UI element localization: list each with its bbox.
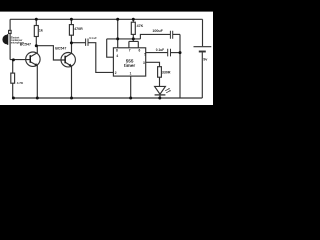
resistor R2 4.7K body	[11, 73, 15, 83]
svg-text:1k: 1k	[39, 28, 43, 32]
transistor Q1 emitter	[31, 62, 38, 98]
svg-text:470R: 470R	[74, 27, 83, 31]
wire resistor R5 to LED	[159, 77, 161, 86]
battery B1 feed from rail	[202, 19, 204, 46]
transistor Q2 circle	[61, 53, 75, 67]
svg-text:7: 7	[129, 48, 131, 52]
resistor R1 1k body	[34, 26, 38, 37]
wire resistor R4 bottom lead	[132, 34, 134, 39]
capacitor C3 0.1uF plates	[168, 49, 171, 57]
wire resistor R4 top lead	[132, 19, 134, 22]
wire capacitor C2 to ground column	[173, 33, 180, 35]
junction dots top rail	[35, 18, 38, 21]
wire resistor R1 top lead	[35, 19, 37, 25]
wire pin1 to ground	[130, 76, 132, 98]
battery B1 short plate	[199, 51, 206, 53]
resistor R5 330R body	[158, 67, 162, 78]
transistor Q1 collector	[31, 46, 38, 57]
capacitor C1 0.1uF plates	[86, 39, 88, 46]
wire base of Q1	[10, 59, 30, 61]
svg-text:BC547: BC547	[20, 42, 31, 46]
wire Vcc drop to node A	[117, 19, 119, 39]
wire capacitor C1 to pin2	[88, 43, 113, 73]
wire pi link pins 7 and 6	[129, 39, 138, 48]
junction dot node A	[116, 37, 119, 40]
transistor Q1 circle	[26, 52, 40, 66]
wire bus node A to pin4 branch	[107, 38, 141, 40]
svg-text:5: 5	[144, 52, 146, 56]
wire resistor R2 bottom lead	[12, 83, 14, 98]
wire pin5 to capacitor C3	[146, 52, 168, 54]
transistor Q2 emitter arrowhead	[69, 64, 72, 67]
LED D1 cathode bar	[155, 94, 166, 96]
junction dot cap ground node	[179, 51, 182, 54]
wire mic to base node	[9, 34, 11, 60]
wire resistor R2 top lead	[12, 60, 14, 74]
wire resistor R3 top lead	[70, 19, 72, 24]
svg-text:0.1 uF: 0.1 uF	[89, 36, 97, 40]
LED D1 lead to ground	[159, 95, 161, 98]
svg-text:0.1uF: 0.1uF	[156, 48, 164, 52]
wire capacitor C3 to ground column	[171, 52, 180, 54]
IC U1 555 box	[113, 48, 145, 76]
svg-text:330R: 330R	[162, 70, 171, 74]
junction dots bottom rail	[12, 97, 15, 100]
wire left drop from rail to mic	[9, 19, 11, 30]
svg-text:8: 8	[116, 49, 118, 53]
wire coupling Q1 collector to Q2 base	[36, 46, 64, 60]
wire pin3 output	[146, 62, 160, 66]
white schematic background between black bars	[0, 12, 213, 105]
junction dot base node	[12, 58, 15, 61]
svg-text:4: 4	[116, 54, 118, 58]
svg-text:3: 3	[143, 61, 145, 65]
battery B1 lead to ground rail	[201, 52, 203, 98]
junction dot node B	[132, 37, 135, 40]
resistor R3 470R body	[69, 25, 73, 36]
wire pin8 drop	[117, 39, 119, 48]
wire resistor R1 bottom lead	[35, 37, 37, 46]
transistor Q2 emitter	[65, 62, 71, 98]
LED D1 triangle	[155, 86, 166, 94]
svg-text:BC547: BC547	[55, 47, 66, 51]
svg-text:6: 6	[139, 49, 141, 53]
transistor Q1 emitter arrowhead	[34, 63, 37, 66]
svg-text:1: 1	[130, 72, 132, 76]
mic terminal square	[9, 30, 12, 33]
battery B1 long plate	[194, 46, 212, 48]
svg-text:timer: timer	[124, 63, 135, 68]
resistor R4 47K body	[131, 22, 135, 34]
svg-text:2: 2	[115, 71, 117, 75]
svg-text:4.7K: 4.7K	[17, 81, 24, 85]
transistor Q1 base bar	[30, 55, 32, 63]
wire top supply rail	[10, 18, 202, 20]
junction dot R1 bottom	[35, 44, 38, 47]
wire node to capacitor C1	[71, 42, 85, 44]
wire ground column right	[179, 34, 181, 98]
wire pin4 jog	[107, 39, 114, 57]
svg-text:47K: 47K	[137, 24, 144, 28]
svg-text:100uF: 100uF	[152, 29, 163, 33]
LED D1 arrows	[165, 89, 170, 93]
capacitor C2 100uF plates	[170, 31, 172, 39]
wire resistor R3 bottom lead	[70, 35, 72, 43]
wire bottom ground rail	[13, 97, 202, 99]
LED arrowheads	[168, 88, 171, 91]
electret microphone body	[2, 35, 7, 45]
transistor Q2 base bar	[64, 56, 66, 64]
transistor Q2 collector	[65, 43, 71, 57]
wire bus to capacitor C2	[140, 34, 170, 39]
junction dot R3 bottom	[70, 41, 73, 44]
